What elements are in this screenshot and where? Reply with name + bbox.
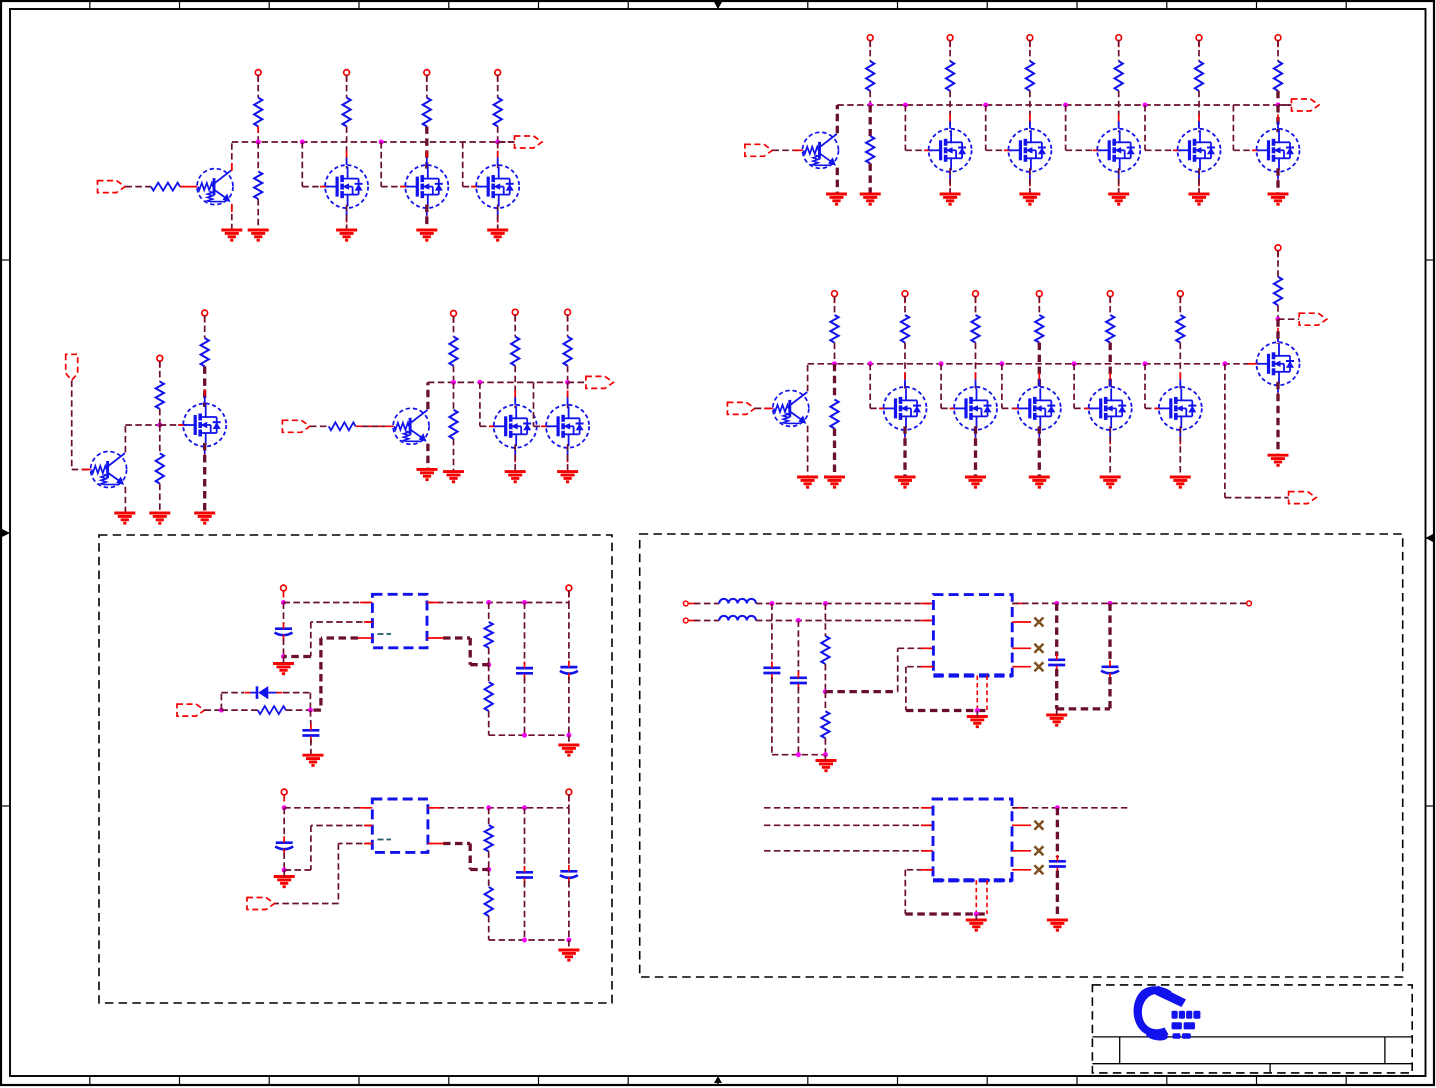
wire to M10 gate (869, 364, 871, 409)
wire collector to node4 (125, 424, 159, 426)
wire rail to C7 (568, 808, 570, 868)
wire VCC to R10 (1029, 40, 1031, 61)
wire R36 to bottom rail (824, 738, 826, 754)
wire U2 pin2 down (311, 825, 372, 827)
wire VCC to R20 (1179, 296, 1181, 315)
mosfet M16 (block4) (183, 404, 226, 447)
wire bottom rail reg1 (489, 734, 569, 736)
wire C10 to gnd node (1055, 669, 1058, 709)
mosfet M2 (block1) (405, 165, 448, 208)
wire bus to M15 gate (1248, 363, 1257, 365)
resistor R11 (1115, 61, 1123, 91)
wire to C9 (797, 621, 799, 675)
wire Q4 emitter down (124, 487, 126, 513)
junction FB reg2 (486, 867, 491, 872)
title block dashed frame (1092, 985, 1412, 1073)
resistor R22 (156, 382, 164, 409)
junction C1 gnd node (281, 654, 286, 659)
power pin VCC block2 col4 (1196, 35, 1202, 41)
input pin J1b (683, 618, 688, 623)
ground under R3 (248, 230, 269, 240)
ground dcdc1 input (816, 761, 837, 771)
wire VCC to R7 (869, 40, 871, 61)
wire VCC to R12 (1198, 40, 1200, 61)
junction bottom rail / R36 (823, 752, 828, 757)
wire node to port P6 (1278, 318, 1299, 320)
mosfet M12 (block3) (1018, 387, 1061, 430)
wire R28 to M17 drain (514, 366, 516, 409)
wire Q2 collector up (836, 105, 839, 133)
wire R16 to M10 drain (904, 343, 906, 391)
port P7 output low (block3) (1289, 492, 1317, 504)
junction input node left (219, 708, 224, 713)
wire U3 pin4 down (906, 666, 934, 668)
wire pin2 net to gnd node (284, 655, 311, 658)
power pin VCC block3 col4 (1107, 291, 1113, 297)
junction M3 drain / port (495, 140, 500, 145)
wire Q5 emitter down (426, 444, 429, 470)
wire P9 to R25 (310, 425, 329, 427)
capacitor C7 (polar) (560, 871, 578, 878)
wire rail1 to R35 (824, 604, 826, 637)
mosfet M1 (block1) (325, 165, 368, 208)
pin U4 nc3 (1012, 850, 1031, 852)
junction gate tee M6 (983, 103, 988, 108)
logo text row 1 (1172, 1011, 1201, 1019)
wire D1 cathode to node (283, 692, 310, 694)
wire node to C2 (309, 710, 312, 727)
wire R2 to node (257, 126, 259, 142)
resistor R17 (971, 315, 979, 343)
mosfet M5 (block2) (929, 129, 972, 172)
junction VIN reg2 (282, 805, 287, 810)
wire junction to M3 drain (497, 142, 499, 169)
wire to M5 gate (904, 105, 906, 150)
ground under Q1 (221, 230, 242, 240)
centre marker bottom (717, 1076, 719, 1084)
pin U3 nc4 (1012, 666, 1031, 668)
wire R34 to bottom rail (488, 916, 490, 940)
wire to C8 (771, 604, 773, 665)
power pin VOUT reg1 (566, 585, 572, 591)
wire C2 to ground (310, 739, 312, 755)
wire R30 to node (286, 709, 311, 711)
junction gate tee M11 (939, 361, 944, 366)
junction out rail / C10 (1054, 601, 1059, 606)
wire R29 to bus junction (567, 366, 569, 383)
wire VCC to R18 (1038, 296, 1040, 315)
no-connect X U3 pin nc4 (1034, 662, 1043, 671)
power pin VCC block2 col3 (1116, 35, 1122, 41)
wire U2 out rail (428, 807, 569, 809)
ground reg2 output (558, 950, 579, 960)
junction U3 gnd (975, 708, 980, 713)
wire R32 to bottom rail (488, 711, 490, 735)
title block cell divider bottom (1269, 1064, 1271, 1073)
wire R15 to ground (833, 429, 836, 478)
resistor R33 (485, 825, 493, 851)
junction gate tee M10 (868, 361, 873, 366)
power pin VCC block3 col1 (902, 291, 908, 297)
transistor Q1 (digital NPN) (197, 169, 233, 205)
wire VCC to R11 (1118, 40, 1120, 61)
wire J1a to L1 (688, 603, 697, 605)
capacitor C11 (polar) (1101, 667, 1119, 674)
wire M18 source to ground (567, 444, 569, 471)
wire R21 to node (1277, 305, 1279, 319)
wire rail to C11 (1108, 603, 1111, 663)
mosfet M6 (block2) (1008, 129, 1051, 172)
resistor R7 (866, 61, 874, 91)
wire VCC to R14 (834, 296, 836, 315)
resistor R1 (151, 183, 180, 191)
dashed group box (LDO regulators) (99, 535, 612, 1003)
wire R1 to Q1 base (180, 186, 197, 188)
wire VCC to R24 (204, 316, 206, 339)
mosfet M7 (block2) (1097, 129, 1140, 172)
junction M18 drain / port (565, 380, 570, 385)
wire C7 to bottom rail (568, 881, 570, 940)
regulator U2 (372, 799, 428, 852)
wire to port P10 (568, 381, 586, 383)
ground reg1 output (558, 745, 579, 755)
ground under R23 (149, 513, 170, 523)
wire node to R3 (257, 142, 259, 172)
wire J1b to L2 (688, 620, 697, 622)
wire M6 source to ground (1029, 168, 1031, 194)
wire R35 to FB node (824, 664, 826, 692)
junction out rail2 / R33 (486, 805, 491, 810)
resistor R5 (423, 98, 431, 127)
power pin VCC block3 col5 (1177, 291, 1183, 297)
ground under M6 (1019, 194, 1040, 204)
dashed group box (DC-DC converters) (640, 534, 1403, 977)
wire to M3 gate (462, 142, 464, 187)
wire rail to C10 (1055, 603, 1058, 656)
junction gate1 tee (300, 140, 305, 145)
junction M15 drain / port (1276, 317, 1281, 322)
wire to M18 gate (533, 382, 535, 426)
resistor R31 (485, 622, 493, 648)
mosfet M3 (block1) (476, 165, 519, 208)
wire to D1 anode (220, 693, 222, 711)
ground under M14 (1170, 477, 1191, 487)
wire P8 to Q4 base (71, 381, 73, 470)
ground under U4 (966, 920, 987, 930)
wire M5 source to ground (949, 168, 951, 194)
junction bottom rail2 b (522, 938, 527, 943)
resistor R16 (901, 315, 909, 343)
transistor Q2 (digital NPN) (803, 132, 839, 168)
wire P11 to node (205, 709, 222, 711)
ground under Q5 (417, 469, 438, 479)
wire U2 FB pin to divider (443, 842, 470, 845)
resistor R21 (1274, 277, 1282, 306)
mosfet M8 (block2) (1178, 129, 1221, 172)
wire R20 to M14 drain (1179, 343, 1181, 391)
wire Q1 emitter down (231, 204, 233, 230)
power pin VCC M17 (512, 309, 518, 315)
resistor R19 (1106, 315, 1114, 343)
capacitor C3 (516, 668, 533, 673)
wire rail net b to U4 pin2 (764, 824, 933, 826)
ground under Q3 (797, 477, 818, 487)
power pin VIN reg1 (281, 585, 287, 591)
wire R5 to M2 drain (425, 126, 428, 168)
wire R31 to FB (488, 648, 490, 665)
wire VIN to C1 (283, 603, 285, 625)
title block cell divider left (1119, 1037, 1121, 1064)
power pin VCC M16 drain (202, 310, 208, 316)
mosfet M15 (block3 right) (1257, 342, 1300, 385)
resistor R13 (1274, 61, 1282, 91)
wire U1 FB pin to divider (443, 636, 470, 639)
ground under M2 (416, 230, 437, 240)
wire R13 to bus junction (1276, 91, 1279, 105)
capacitor C8 (763, 668, 780, 673)
resistor R15 (830, 400, 838, 429)
wire bus net5 (428, 381, 568, 383)
wire to M12 gate (1001, 364, 1003, 409)
wire VCC to R26 (453, 316, 455, 337)
junction out rail / C12 (1055, 805, 1060, 810)
transistor Q5 (digital NPN) (393, 408, 429, 444)
wire rail to R33 (488, 808, 490, 825)
transistor Q3 (digital NPN) (773, 390, 809, 426)
ground under R15 (824, 477, 845, 487)
junction bottom rail c (566, 733, 571, 738)
capacitor C1 (polar) (275, 629, 293, 636)
capacitor C9 (790, 678, 807, 683)
company logo C swirl (1134, 986, 1172, 1037)
pin U4 nc2 (1012, 824, 1031, 826)
power pin VCC block2 colA (867, 35, 873, 41)
junction gate tee M14 (1143, 361, 1148, 366)
wire VIN to U1 pin1 (284, 602, 373, 604)
wire C6 to bottom rail (524, 881, 526, 940)
junction FB reg1 (486, 662, 491, 667)
wire VCC to R6 (497, 75, 499, 98)
inductor L1 (719, 599, 756, 604)
wire VCC to R16 (904, 296, 906, 315)
wire rail to C3 (524, 603, 526, 665)
ground under M16 (194, 513, 215, 523)
power pin VCC block3 colA (832, 291, 838, 297)
junction rail1 / C8 (769, 601, 774, 606)
ground under M7 (1108, 194, 1129, 204)
wire bus net2 (837, 104, 1291, 106)
power pin VCC M15 drain (1275, 245, 1281, 251)
wire U4 output rail (1012, 807, 1129, 809)
ground under M13 (1100, 477, 1121, 487)
centre marker top (717, 1, 719, 9)
resistor R20 (1176, 315, 1184, 343)
wire M16 source to ground (203, 443, 206, 513)
pin U4 out (1012, 807, 1024, 809)
pin U4 bottom pads (975, 880, 977, 914)
resistor R9 (946, 61, 954, 91)
port P11 input (reg1) (177, 704, 205, 716)
port P5 input (block3) (727, 402, 755, 414)
wire rail to R31 (488, 603, 490, 623)
ground under Q2 (826, 194, 847, 204)
centre marker right (1426, 537, 1435, 539)
junction M9 drain / port (1276, 103, 1281, 108)
junction gate tee M12 (999, 361, 1004, 366)
wire gnd return rail U4 (905, 912, 987, 915)
junction gate tee M17 (477, 380, 482, 385)
wire R8 to ground (869, 163, 872, 194)
wire bus to R27 (453, 382, 455, 409)
junction bottom rail b (522, 733, 527, 738)
wire P5 to Q3 base (755, 407, 773, 409)
junction U4 gnd (974, 912, 979, 917)
wire node to M15 drain (1276, 319, 1279, 344)
wire VCC to R17 (975, 296, 977, 315)
wire R17 to M11 drain (975, 343, 977, 391)
ground under C5 (274, 877, 295, 887)
wire R25 to Q5 base (356, 425, 394, 427)
ground under M1 (336, 230, 357, 240)
wire to M14 gate (1144, 364, 1146, 409)
junction gate tee M5 (903, 103, 908, 108)
wire VIN to U2 pin1 (284, 807, 372, 809)
ground under M18 (557, 472, 578, 482)
wire C9 to bottom rail (797, 687, 799, 755)
power pin VOUT reg2 (566, 789, 572, 795)
ground under C1 (273, 664, 294, 674)
junction out rail / C11 (1108, 601, 1113, 606)
wire Q3 emitter down (807, 426, 809, 477)
junction colA-bus5 (451, 380, 456, 385)
ground under R27 (443, 472, 464, 482)
resistor R27 (449, 410, 457, 439)
resistor R32 (485, 682, 493, 711)
resistor R4 (343, 98, 351, 127)
no-connect X U4 pin nc3 (1034, 846, 1043, 855)
power pin VCC block1 col1 (344, 70, 350, 76)
wire R3 to ground (257, 199, 259, 230)
title block row line 1 (1092, 1036, 1412, 1038)
wire M9 source to ground (1276, 168, 1279, 194)
wire R11 to M7 drain (1118, 91, 1120, 133)
junction VIN reg1 (281, 600, 286, 605)
ground under M11 (965, 477, 986, 487)
dcdc converter U3 (933, 595, 1012, 676)
wire Q3 collector up (807, 364, 809, 392)
wire node to R30 (221, 709, 257, 711)
power pin VCC M18 (565, 309, 571, 315)
wire bottom rail reg2 (489, 939, 569, 941)
zone ticks right edge (1426, 260, 1435, 806)
wire C4 to bottom rail (568, 677, 570, 735)
ground under C2 (303, 755, 324, 765)
resistor R26 (449, 337, 457, 366)
no-connect X U4 pin nc2 (1034, 821, 1043, 830)
mosfet M18 (block5) (546, 405, 589, 448)
resistor R10 (1026, 61, 1034, 91)
wire VCC to R22 (159, 361, 161, 382)
junction input node right (308, 708, 313, 713)
wire junction to M18 drain (567, 382, 569, 408)
junction colA-bus3 (832, 361, 837, 366)
resistor R29 (564, 337, 572, 366)
wire R26 to bus (453, 366, 455, 383)
wire C3 to bottom rail (524, 677, 526, 735)
wire U1 pin2 down (311, 621, 373, 623)
resistor R18 (1035, 315, 1043, 343)
wire L2 to U3 pin2 (756, 620, 934, 622)
wire P1 to R1 (125, 186, 151, 188)
resistor R34 (485, 887, 493, 916)
wire Q5 collector up (426, 382, 429, 409)
junction out rail / C3 (522, 600, 527, 605)
inductor L2 (719, 616, 756, 621)
wire M17 source to ground (514, 444, 516, 471)
pin U4 nc4 (1012, 869, 1031, 871)
title block row line 2 (1092, 1063, 1412, 1065)
ground dcdc1 output (1046, 715, 1067, 725)
junction gate tee M7 (1063, 103, 1068, 108)
title block cell divider right (1384, 1037, 1386, 1064)
no-connect X U4 pin nc4 (1034, 865, 1043, 874)
junction colA-bus2 (868, 103, 873, 108)
wire FB to R36 (824, 692, 826, 712)
wire VCC to R13 (1277, 40, 1279, 61)
mosfet M17 (block5) (494, 405, 537, 448)
centre marker left (1, 532, 10, 534)
wire rail net c to U4 pin3 (764, 850, 933, 852)
port P6 output (block3) (1299, 313, 1327, 325)
ground under M15 (1268, 455, 1289, 465)
wire U1 pin3 (EN) to input node (321, 636, 358, 639)
input pin J1a (683, 601, 688, 606)
mosfet M9 (block2) (1257, 129, 1300, 172)
wire R19 to M13 drain (1109, 343, 1112, 391)
label mark inside U1 (378, 633, 392, 635)
wire bus to R8 (869, 105, 872, 136)
junction gate tee M8 (1143, 103, 1148, 108)
ground under M12 (1029, 477, 1050, 487)
wire VCC to R29 (567, 315, 569, 337)
power pin VCC block2 col2 (1027, 35, 1033, 41)
wire U2 pin3 to port P12 (338, 843, 372, 845)
junction bus3 / output tee (1222, 361, 1227, 366)
port P12 input (reg2) (247, 898, 275, 910)
wire FB to U3 pin3 (heavy) (825, 690, 897, 693)
power pin VCC block1 col3 (495, 70, 501, 76)
wire R10 to M6 drain (1029, 91, 1031, 133)
junction rail1 / R35 (823, 601, 828, 606)
wire R22 to node4 (159, 409, 161, 425)
port P3 input (block2) (745, 144, 773, 156)
wire R14 to bus (834, 343, 836, 364)
ground under R8 (860, 194, 881, 204)
wire M10 source to ground (903, 426, 906, 477)
wire output gnd rail dcdc1 (1057, 707, 1110, 710)
pin U3 nc3 (1012, 647, 1031, 649)
wire M11 source to ground (974, 426, 977, 477)
wire VCC to R9 (949, 40, 951, 61)
ground under M9 (1268, 194, 1289, 204)
junction gate tee M13 (1072, 361, 1077, 366)
wire node4 to R23 (159, 425, 161, 453)
wire to M17 gate (479, 382, 481, 426)
wire Q4 collector up (124, 425, 126, 452)
power pin VCC block5 colA (451, 311, 457, 317)
wire bottom rail dcdc1 input (772, 754, 826, 756)
ground under M5 (940, 194, 961, 204)
